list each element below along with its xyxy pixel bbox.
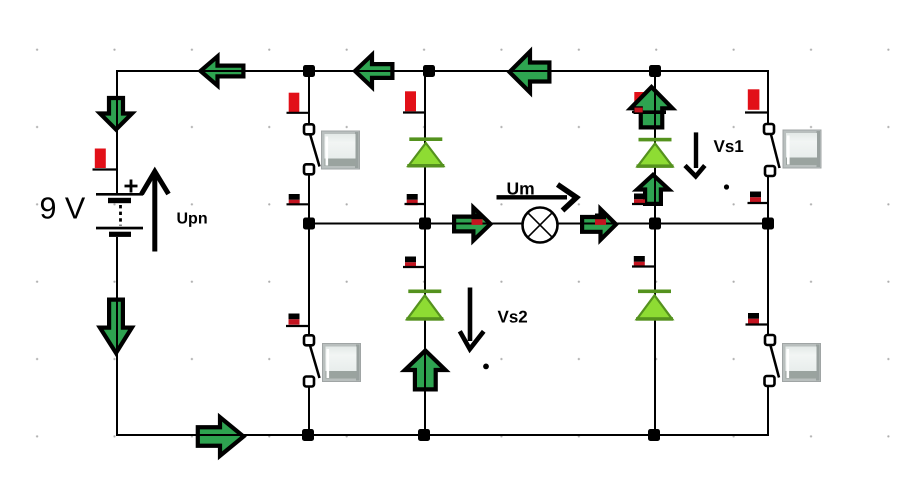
svg-text:Um: Um [507, 179, 535, 199]
svg-text:Vs1: Vs1 [714, 137, 744, 156]
svg-text:Vs2: Vs2 [498, 308, 528, 327]
svg-text:9 V: 9 V [40, 192, 86, 226]
svg-text:Upn: Upn [177, 211, 208, 228]
